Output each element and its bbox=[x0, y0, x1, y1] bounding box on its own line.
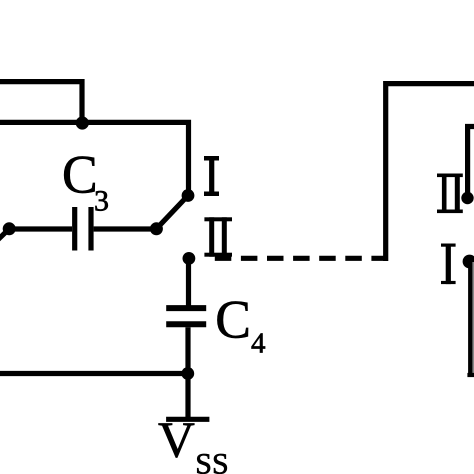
svg-text:C: C bbox=[62, 145, 98, 205]
wire bottom node to Vss bbox=[185, 374, 190, 420]
label II (left switch position II) bbox=[204, 217, 232, 221]
wire top-left bus bbox=[0, 122, 189, 195]
node II dot bbox=[183, 252, 196, 265]
svg-text:SS: SS bbox=[195, 447, 228, 474]
wire right switch II stub bbox=[468, 127, 474, 199]
label I (left switch position I) bbox=[204, 156, 219, 161]
label I (right switch position I) bbox=[441, 244, 456, 247]
capacitor C4 bottom plate bbox=[166, 321, 206, 327]
svg-text:4: 4 bbox=[251, 328, 266, 360]
label II (right switch position II) bbox=[437, 174, 463, 178]
wire C4 to bottom node bbox=[185, 327, 190, 373]
svg-text:V: V bbox=[158, 413, 195, 469]
right switch I contact dot bbox=[463, 255, 474, 269]
wire top-left feedback (upper) bbox=[0, 82, 82, 123]
node bottom junction dot bbox=[181, 367, 194, 380]
switch S1 arm (position I) bbox=[156, 196, 188, 229]
switch S1 input node dot left edge bbox=[3, 222, 16, 235]
svg-text:3: 3 bbox=[94, 185, 109, 218]
node junction dot top-left bbox=[76, 116, 89, 129]
right cropped element edge bbox=[472, 262, 474, 373]
wire C3 left segment bbox=[6, 226, 72, 231]
switch S1 left stub off-edge bbox=[0, 229, 9, 243]
wire right branch vertical and top bbox=[386, 84, 474, 261]
svg-text:C: C bbox=[215, 290, 251, 350]
capacitor C4 top plate bbox=[166, 305, 206, 311]
capacitor C3 right plate bbox=[88, 207, 93, 251]
wire bottom bus bbox=[0, 371, 188, 376]
switch S1 pivot dot bbox=[150, 222, 163, 235]
wire right switch I lead bbox=[468, 261, 473, 375]
right cropped element bottom bar bbox=[467, 373, 474, 377]
capacitor C3 left plate bbox=[72, 207, 77, 251]
switch S1 throw I contact dot bbox=[182, 189, 195, 202]
wire dashed node II to right branch bbox=[215, 256, 384, 261]
wire node II to C4 bbox=[186, 258, 191, 306]
right switch II contact dot bbox=[461, 192, 473, 204]
Vss supply bar bbox=[166, 417, 209, 422]
wire C3 right segment bbox=[94, 226, 157, 231]
